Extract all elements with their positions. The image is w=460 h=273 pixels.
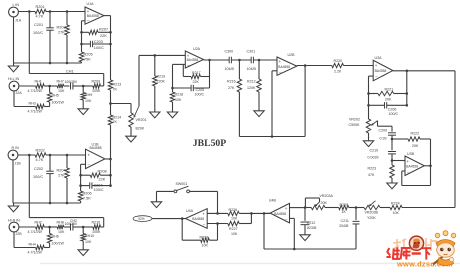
resistor R224 10K xyxy=(380,201,402,214)
switch SW001 xyxy=(174,182,190,193)
resistor R219 220K shunt xyxy=(153,55,166,112)
svg-text:−: − xyxy=(203,222,206,227)
wire U4B output to node xyxy=(264,212,270,214)
wire C209 to C210 xyxy=(391,135,394,150)
wire U4B inverting input xyxy=(290,218,295,249)
svg-text:R204: R204 xyxy=(57,168,66,172)
wire C301 to U2B xyxy=(253,59,277,62)
wire U4B output down xyxy=(263,213,265,249)
resistor R218 10K xyxy=(170,92,183,112)
svg-text:BA4558: BA4558 xyxy=(375,69,387,73)
svg-text:+: + xyxy=(187,53,190,58)
svg-text:R224: R224 xyxy=(391,201,400,205)
svg-text:R223: R223 xyxy=(368,167,377,171)
svg-text:JBL50P: JBL50P xyxy=(193,138,226,149)
ground xyxy=(254,111,264,117)
capacitor CH1 100/25V xyxy=(65,80,84,90)
svg-text:R201: R201 xyxy=(36,5,45,9)
svg-text:100/C: 100/C xyxy=(33,175,43,179)
resistor RH4 4.7/1/2W xyxy=(14,232,50,255)
wire hi-R inject loop xyxy=(29,218,103,227)
wire C210 to R223 xyxy=(391,154,394,165)
wire U3B output xyxy=(424,165,432,168)
capacitor C204 100/C feedback xyxy=(81,182,112,192)
svg-text:SW001: SW001 xyxy=(176,182,188,186)
svg-text:22K: 22K xyxy=(99,178,106,182)
resistor RH5 100/1W xyxy=(47,86,64,107)
svg-text:+: + xyxy=(87,153,90,158)
ground xyxy=(151,202,161,208)
wire VR202 wiper xyxy=(371,121,392,132)
jack J2B Hi-R IN xyxy=(8,219,22,237)
svg-text:−: − xyxy=(87,19,90,24)
resistor R210 100K xyxy=(83,221,104,235)
ground xyxy=(8,203,18,212)
resistor R202 4.7K xyxy=(35,149,46,162)
wire U2B inverting input xyxy=(272,71,277,137)
wire jack J1B ground stem xyxy=(12,160,14,203)
svg-text:120K: 120K xyxy=(247,86,256,90)
resistor R220 2.2K xyxy=(332,59,374,74)
svg-text:R225: R225 xyxy=(340,203,349,207)
wire VR201 wiper xyxy=(134,55,140,117)
wire hi-R inject vertical xyxy=(28,155,30,218)
svg-text:4.7/1/2W: 4.7/1/2W xyxy=(28,89,43,93)
wire U2A feedback branch xyxy=(182,64,184,76)
jack J1B R-IN xyxy=(8,146,21,166)
svg-text:R206: R206 xyxy=(83,192,92,196)
op-amp U1A BA4558 xyxy=(85,2,104,24)
svg-text:RH6: RH6 xyxy=(52,234,59,238)
wire U3A output row xyxy=(393,70,455,73)
svg-text:R208: R208 xyxy=(98,169,107,173)
svg-text:27K: 27K xyxy=(228,86,235,90)
net tag output xyxy=(133,216,152,222)
jack J1A L-IN xyxy=(9,3,22,22)
ground xyxy=(78,250,88,256)
wire U1A output xyxy=(104,16,112,80)
svg-text:B20K: B20K xyxy=(136,126,145,130)
wire U4B bottom feedback xyxy=(264,248,356,251)
svg-text:+: + xyxy=(407,159,410,164)
capacitor CH2 100/25V xyxy=(65,222,84,230)
resistor R221 20K feedback xyxy=(369,87,409,101)
svg-text:92%: 92% xyxy=(138,217,145,221)
svg-text:+: + xyxy=(279,59,282,64)
svg-text:100/C: 100/C xyxy=(94,46,104,50)
capacitor C206 100/C feedback xyxy=(369,102,409,116)
svg-text:J2B: J2B xyxy=(16,232,23,236)
op-amp U4B BA4558 xyxy=(269,199,290,223)
watermark mascot xyxy=(433,231,456,266)
svg-text:R209: R209 xyxy=(92,80,101,84)
svg-text:−: − xyxy=(187,63,190,68)
resistor R227 10K xyxy=(228,213,252,236)
svg-text:100K: 100K xyxy=(92,230,101,234)
svg-text:BA4558: BA4558 xyxy=(192,217,204,221)
wire U1B inverting input xyxy=(79,164,85,191)
svg-text:+: + xyxy=(202,211,205,216)
svg-text:R205: R205 xyxy=(84,53,93,57)
wire SW001 left to ground xyxy=(157,191,174,201)
svg-text:100/C: 100/C xyxy=(94,188,104,192)
resistor R206 7.5K xyxy=(78,191,91,203)
op-amp U4A BA4558 xyxy=(185,209,207,229)
svg-text:1K: 1K xyxy=(342,210,347,214)
wire to U3B non-inverting input xyxy=(392,160,405,162)
wire U4B non-inverting input xyxy=(290,207,306,209)
resistor R214 7K mix xyxy=(108,104,121,160)
svg-text:10K: 10K xyxy=(85,99,92,103)
svg-text:100/C: 100/C xyxy=(195,93,205,97)
svg-text:U3A: U3A xyxy=(375,56,383,60)
resistor R213 7K mix xyxy=(108,80,121,104)
capacitor C202 100/C xyxy=(33,155,54,203)
svg-text:C204: C204 xyxy=(94,183,103,187)
ground xyxy=(387,183,397,189)
svg-text:47K: 47K xyxy=(368,173,375,177)
resistor R204 27K xyxy=(57,155,70,203)
resistor R207 22K feedback xyxy=(82,28,111,38)
svg-text:C209: C209 xyxy=(379,128,388,132)
ground rail R input xyxy=(13,202,81,205)
resistor R205 75K xyxy=(79,52,92,63)
wire U4A inverting row xyxy=(207,222,228,225)
svg-text:R220: R220 xyxy=(334,59,343,63)
capacitor C300 104/B xyxy=(225,50,235,71)
svg-text:R214: R214 xyxy=(113,115,122,119)
op-amp U2B BA4558 xyxy=(277,53,297,75)
svg-text:100/C: 100/C xyxy=(389,112,399,116)
svg-text:20K: 20K xyxy=(412,144,419,148)
svg-text:C203: C203 xyxy=(94,40,103,44)
wire U2B output column xyxy=(304,64,307,136)
svg-text:+: + xyxy=(87,9,90,14)
wire to U2A non-inverting input xyxy=(139,54,185,57)
potentiometer VR201 B20K volume xyxy=(129,104,147,137)
svg-text:10K: 10K xyxy=(58,230,65,234)
svg-text:C300: C300 xyxy=(225,50,234,54)
capacitor C205 100/C feedback xyxy=(173,85,210,97)
wire L input row xyxy=(18,10,85,13)
svg-text:RH2: RH2 xyxy=(35,221,42,225)
watermark red text xyxy=(387,247,432,259)
resistor R208 22K feedback xyxy=(81,169,112,181)
ground xyxy=(8,63,18,72)
wire U2A output column xyxy=(208,59,211,88)
jack J2A Hi-L IN xyxy=(8,77,22,95)
svg-text:+: + xyxy=(285,206,288,211)
svg-text:2.2K: 2.2K xyxy=(334,70,342,74)
svg-text:U1A: U1A xyxy=(87,2,95,6)
svg-text:104/B: 104/B xyxy=(225,67,235,71)
svg-text:R202: R202 xyxy=(36,149,45,153)
svg-text:R216: R216 xyxy=(227,80,236,84)
ground xyxy=(300,235,310,241)
svg-text:10K: 10K xyxy=(231,232,238,236)
potentiometer VR203B Y20K xyxy=(356,201,380,220)
svg-text:C500K: C500K xyxy=(349,123,361,127)
svg-text:VR203A: VR203A xyxy=(320,194,334,198)
op-amp U1B BA4558 xyxy=(86,142,105,168)
svg-text:0.39: 0.39 xyxy=(380,137,387,141)
wire right edge feedback xyxy=(402,71,455,208)
svg-text:0.0039: 0.0039 xyxy=(368,155,379,159)
svg-text:4.7K: 4.7K xyxy=(36,15,44,19)
svg-text:10K: 10K xyxy=(58,89,65,93)
svg-text:100/C: 100/C xyxy=(33,31,43,35)
svg-text:C202: C202 xyxy=(34,167,43,171)
svg-text:RH5: RH5 xyxy=(52,93,59,97)
svg-text:10K: 10K xyxy=(202,244,209,248)
svg-text:4.7/1/2W: 4.7/1/2W xyxy=(28,251,43,255)
svg-text:100/25V: 100/25V xyxy=(65,222,78,226)
svg-text:Hi-R IN: Hi-R IN xyxy=(8,219,20,223)
capacitor C209 0.39 xyxy=(379,128,397,140)
watermark red badge xyxy=(409,236,423,250)
svg-text:75K: 75K xyxy=(84,57,91,61)
wire mix node to VR201 xyxy=(111,103,132,105)
svg-text:C301: C301 xyxy=(247,50,256,54)
resistor R226 10K xyxy=(228,208,270,221)
svg-text:R221: R221 xyxy=(385,87,394,91)
svg-text:220K: 220K xyxy=(157,79,166,83)
svg-text:−: − xyxy=(375,74,378,79)
svg-text:R217: R217 xyxy=(192,71,201,75)
svg-text:R227: R227 xyxy=(229,227,238,231)
svg-text:BA4558: BA4558 xyxy=(278,65,290,69)
svg-text:C206: C206 xyxy=(388,107,397,111)
wire jack J1A ground stem xyxy=(13,17,15,63)
svg-text:−: − xyxy=(279,69,282,74)
resistor RH10 10K shunt xyxy=(81,226,94,250)
svg-text:R222: R222 xyxy=(411,132,420,136)
svg-text:+: + xyxy=(375,63,378,68)
svg-text:7.5K: 7.5K xyxy=(83,197,91,201)
svg-text:7K: 7K xyxy=(113,120,118,124)
resistor R225 1K xyxy=(325,203,356,214)
svg-text:C210: C210 xyxy=(370,149,379,153)
svg-text:100/25V: 100/25V xyxy=(65,80,78,84)
svg-text:J1B: J1B xyxy=(15,162,22,166)
wire U3A feedback column xyxy=(406,71,408,106)
svg-text:VR203B: VR203B xyxy=(365,210,379,214)
svg-text:4.7/1/2W: 4.7/1/2W xyxy=(28,110,43,114)
resistor R228 10K feedback xyxy=(182,219,217,248)
svg-text:U2B: U2B xyxy=(288,53,296,57)
resistor RH9 10K shunt xyxy=(81,85,92,109)
svg-text:BA4558: BA4558 xyxy=(187,58,199,62)
svg-text:VR202: VR202 xyxy=(349,118,360,122)
svg-text:20K: 20K xyxy=(321,201,328,205)
watermark faint streak xyxy=(40,263,460,265)
svg-text:10K: 10K xyxy=(85,240,92,244)
resistor RH7 10K xyxy=(50,80,70,94)
svg-text:R207: R207 xyxy=(99,28,108,32)
wire hi-L inject loop xyxy=(29,69,103,86)
resistor R217 22K feedback xyxy=(183,71,209,84)
capacitor C203 100/C feedback xyxy=(82,40,111,50)
svg-text:27K: 27K xyxy=(58,173,65,177)
svg-text:R213: R213 xyxy=(113,82,122,86)
resistor R216 27K xyxy=(227,60,242,137)
op-amp U3B BA4558 xyxy=(405,152,424,176)
wire U4A non-inverting row xyxy=(207,212,228,215)
svg-text:R226: R226 xyxy=(229,208,238,212)
resistor R212 120K shunt xyxy=(247,60,261,111)
svg-text:10K: 10K xyxy=(393,211,400,215)
svg-text:U2A: U2A xyxy=(193,47,201,51)
svg-text:823/B: 823/B xyxy=(307,226,317,230)
svg-text:BA4558: BA4558 xyxy=(274,212,286,216)
svg-text:C201: C201 xyxy=(34,23,43,27)
svg-text:RH7: RH7 xyxy=(57,80,64,84)
resistor R201 4.7K xyxy=(35,5,46,18)
svg-text:100/1W: 100/1W xyxy=(52,101,65,105)
svg-text:R IN: R IN xyxy=(12,146,20,150)
svg-text:−: − xyxy=(87,162,90,167)
svg-text:L IN: L IN xyxy=(13,3,20,7)
svg-text:RH9: RH9 xyxy=(85,93,92,97)
svg-text:Hi-L IN: Hi-L IN xyxy=(8,77,19,81)
capacitor C210 0.0039 xyxy=(368,149,397,160)
svg-text:RH8: RH8 xyxy=(57,221,64,225)
svg-text:R219: R219 xyxy=(157,74,166,78)
svg-text:U4B: U4B xyxy=(269,199,277,203)
svg-text:R203: R203 xyxy=(57,25,66,29)
svg-text:4.7/1/2W: 4.7/1/2W xyxy=(28,230,43,234)
svg-text:C212: C212 xyxy=(307,221,316,225)
wire SW001 right to U4A input xyxy=(190,191,218,213)
svg-text:J1A: J1A xyxy=(15,19,22,23)
wire U2A output row xyxy=(204,59,230,61)
node mix junction xyxy=(109,102,112,105)
wire U1B feedback column xyxy=(110,159,112,186)
ground xyxy=(167,112,177,118)
svg-text:J2A: J2A xyxy=(16,91,23,95)
capacitor C201 100/C xyxy=(33,12,54,64)
capacitor C301 104/B xyxy=(247,50,257,71)
wire net tag to U4A output xyxy=(152,217,186,220)
svg-text:4.7K: 4.7K xyxy=(36,158,44,162)
wire R input row xyxy=(18,154,86,157)
svg-text:10K: 10K xyxy=(175,98,182,102)
svg-text:7K: 7K xyxy=(113,87,118,91)
svg-text:27K: 27K xyxy=(58,30,65,34)
wire U2B feedback bus xyxy=(239,135,305,138)
svg-text:R218: R218 xyxy=(175,93,184,97)
resistor R209 100K xyxy=(83,80,104,94)
wire U1B output xyxy=(105,158,112,161)
svg-text:R212: R212 xyxy=(247,80,256,84)
ground xyxy=(363,141,373,147)
svg-text:RH10: RH10 xyxy=(85,234,94,238)
wire U3B inverting feedback loop xyxy=(402,166,431,186)
svg-text:C205: C205 xyxy=(196,88,205,92)
ground xyxy=(150,112,160,118)
svg-text:100K: 100K xyxy=(92,89,101,93)
svg-text:−: − xyxy=(407,170,410,175)
ground xyxy=(78,109,88,115)
resistor RH6 100/1W xyxy=(47,227,64,248)
svg-text:BA4558: BA4558 xyxy=(90,146,102,150)
svg-text:VR201: VR201 xyxy=(136,118,147,122)
svg-text:22K: 22K xyxy=(193,80,200,84)
svg-text:−: − xyxy=(285,216,288,221)
svg-text:CH1: CH1 xyxy=(66,69,74,73)
svg-text:U4A: U4A xyxy=(186,209,194,213)
svg-text:RH4: RH4 xyxy=(29,242,36,246)
resistor R222 20K feedback xyxy=(392,132,431,166)
capacitor C211 334/B xyxy=(339,206,360,249)
svg-text:10K: 10K xyxy=(231,217,238,221)
resistor R223 47K xyxy=(368,165,395,183)
wire U2B output row xyxy=(297,65,332,67)
resistor RH3 4.7/1/2W xyxy=(14,91,50,114)
resistor RH8 10K xyxy=(50,221,71,235)
svg-text:C211: C211 xyxy=(341,219,349,223)
resistor RH1 4.7/1/2W xyxy=(19,80,51,94)
watermark outline text xyxy=(393,238,437,253)
ground rail L input xyxy=(14,62,82,65)
op-amp U2A BA4558 xyxy=(185,47,203,68)
svg-text:20K: 20K xyxy=(385,98,392,102)
svg-text:Y20K: Y20K xyxy=(367,216,376,220)
svg-text:R228: R228 xyxy=(200,235,209,239)
capacitor C212 823/B xyxy=(301,206,317,235)
wire hi-level inject vertical xyxy=(28,12,30,74)
op-amp U3A BA4558 xyxy=(373,56,393,81)
potentiometer VR202 C500K xyxy=(349,118,371,141)
svg-text:334/B: 334/B xyxy=(339,224,349,228)
ground xyxy=(126,136,136,142)
wire C300 to C301 xyxy=(231,59,251,62)
wire U1A inverting input xyxy=(80,21,85,52)
wire U2A inverting input xyxy=(171,64,185,92)
resistor R203 27K xyxy=(57,12,70,64)
svg-text:R210: R210 xyxy=(92,221,101,225)
svg-text:BA4558: BA4558 xyxy=(406,165,418,169)
svg-text:RH1: RH1 xyxy=(35,80,42,84)
svg-text:100/1W: 100/1W xyxy=(52,242,65,246)
svg-text:RH3: RH3 xyxy=(29,101,36,105)
wire U3A inverting input xyxy=(367,76,373,119)
svg-text:22K: 22K xyxy=(100,34,107,38)
svg-text:104/B: 104/B xyxy=(247,67,257,71)
resistor RH2 4.7/1/2W xyxy=(19,221,51,235)
potentiometer VR203A 20K xyxy=(305,194,333,210)
svg-text:U3B: U3B xyxy=(407,152,415,156)
svg-text:BA4558: BA4558 xyxy=(87,14,99,18)
